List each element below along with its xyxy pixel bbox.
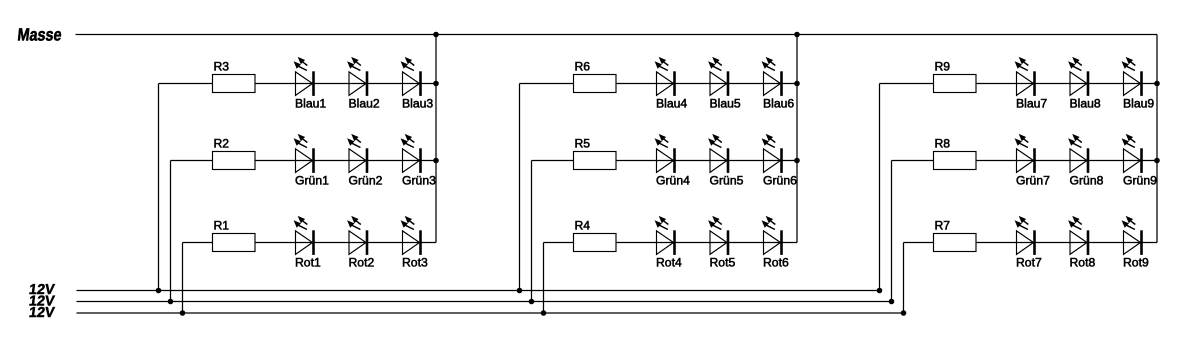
svg-text:Grün1: Grün1 (295, 174, 329, 188)
wire R4 input (544, 242, 574, 244)
wire R6 input (520, 83, 574, 85)
junction rail 1 / R6 feed (517, 288, 523, 294)
junction rail 2 / R2 feed (168, 299, 174, 305)
LED Rot2 (347, 216, 374, 270)
LED Rot5 (708, 216, 735, 270)
LED Grün8 (1068, 134, 1103, 188)
LED Rot3 (401, 216, 428, 270)
wire 12V rail 3 (77, 312, 904, 314)
wire R8 LED chain (976, 160, 1157, 162)
junction group1 vertical / Blau row (433, 81, 439, 87)
wire R5 feed vertical (531, 161, 533, 302)
LED Blau6 (762, 57, 795, 111)
svg-text:Blau1: Blau1 (295, 97, 326, 111)
svg-text:Rot9: Rot9 (1123, 256, 1149, 270)
wire R7 LED chain (976, 242, 1157, 244)
svg-text:R9: R9 (935, 59, 951, 73)
wire group1 cathode vertical (to Masse) (435, 35, 437, 243)
LED Blau8 (1068, 57, 1101, 111)
wire R4 LED chain (616, 242, 797, 244)
svg-text:Rot2: Rot2 (349, 256, 375, 270)
svg-text:R1: R1 (214, 218, 230, 232)
svg-text:Blau8: Blau8 (1070, 97, 1101, 111)
wire R1 feed vertical (182, 243, 184, 314)
LED Blau2 (347, 57, 380, 111)
junction group2 vertical / Blau row (794, 81, 800, 87)
svg-text:Blau4: Blau4 (656, 97, 687, 111)
LED Blau3 (401, 57, 434, 111)
junction rail 1 / R9 feed (877, 288, 883, 294)
svg-text:Blau2: Blau2 (349, 97, 380, 111)
wire R1 LED chain (255, 242, 436, 244)
junction Masse / group2 vertical (794, 32, 800, 38)
wire R3 feed vertical (158, 84, 160, 291)
wire group2 cathode vertical (to Masse) (796, 35, 798, 243)
wire R5 LED chain (616, 160, 797, 162)
resistor R7 (934, 218, 977, 251)
LED Grün6 (762, 134, 797, 188)
LED Rot7 (1015, 216, 1042, 270)
LED Rot4 (655, 216, 682, 270)
net label 12V (rail 3) (28, 305, 56, 321)
wire R8 input (892, 160, 934, 162)
junction group2 vertical / Grün row (794, 158, 800, 164)
LED Rot6 (762, 216, 789, 270)
resistor R2 (213, 136, 256, 169)
junction rail 2 / R8 feed (889, 299, 895, 305)
junction group3 vertical / Grün row (1154, 158, 1160, 164)
svg-text:Grün8: Grün8 (1070, 174, 1104, 188)
svg-text:Rot6: Rot6 (763, 256, 789, 270)
junction rail 2 / R5 feed (529, 299, 535, 305)
wire R6 LED chain (616, 83, 797, 85)
wire R8 feed vertical (891, 161, 893, 302)
resistor R5 (574, 136, 617, 169)
svg-text:12V: 12V (28, 305, 56, 321)
LED Blau4 (655, 57, 688, 111)
wire R3 input (159, 83, 213, 85)
svg-text:Rot5: Rot5 (710, 256, 736, 270)
junction group3 vertical / Blau row (1154, 81, 1160, 87)
wire R2 feed vertical (170, 161, 172, 302)
svg-text:R8: R8 (935, 136, 951, 150)
LED Grün2 (347, 134, 382, 188)
junction rail 3 / R7 feed (901, 310, 907, 316)
junction group1 vertical / Grün row (433, 158, 439, 164)
wire R3 LED chain (255, 83, 436, 85)
svg-text:Masse: Masse (17, 25, 63, 45)
svg-text:Rot4: Rot4 (656, 256, 682, 270)
LED Grün4 (655, 134, 690, 188)
wire 12V rail 2 (77, 301, 892, 303)
svg-text:R5: R5 (575, 136, 591, 150)
net label 12V (rail 1) (28, 282, 56, 298)
junction rail 1 / R3 feed (156, 288, 162, 294)
svg-text:Grün4: Grün4 (656, 174, 690, 188)
LED Grün7 (1015, 134, 1050, 188)
LED Rot9 (1122, 216, 1149, 270)
svg-text:Blau5: Blau5 (710, 97, 741, 111)
resistor R9 (934, 59, 977, 92)
net label 12V (rail 2) (28, 294, 56, 310)
resistor R4 (574, 218, 617, 251)
svg-text:Grün2: Grün2 (349, 174, 383, 188)
svg-text:R3: R3 (214, 59, 230, 73)
LED Blau1 (294, 57, 327, 111)
LED Blau9 (1122, 57, 1155, 111)
LED Rot8 (1068, 216, 1095, 270)
svg-text:Rot3: Rot3 (402, 256, 428, 270)
svg-text:R7: R7 (935, 218, 951, 232)
LED Blau7 (1015, 57, 1048, 111)
wire 12V rail 1 (77, 290, 880, 292)
svg-text:Blau9: Blau9 (1123, 97, 1154, 111)
svg-text:Blau7: Blau7 (1016, 97, 1047, 111)
resistor R1 (213, 218, 256, 251)
wire group3 cathode vertical (to Masse) (1156, 35, 1158, 243)
LED Grün9 (1122, 134, 1157, 188)
svg-text:R4: R4 (575, 218, 591, 232)
wire R2 LED chain (255, 160, 436, 162)
LED Rot1 (294, 216, 321, 270)
wire R7 input (904, 242, 934, 244)
svg-text:R2: R2 (214, 136, 230, 150)
junction Masse / group1 vertical (433, 32, 439, 38)
junction rail 3 / R1 feed (180, 310, 186, 316)
LED Grün1 (294, 134, 329, 188)
svg-text:Blau6: Blau6 (763, 97, 794, 111)
wire R4 feed vertical (543, 243, 545, 314)
resistor R8 (934, 136, 977, 169)
svg-text:Grün5: Grün5 (710, 174, 744, 188)
svg-text:Grün7: Grün7 (1016, 174, 1050, 188)
net label Masse (17, 25, 63, 45)
resistor R3 (213, 59, 256, 92)
LED Blau5 (708, 57, 741, 111)
svg-text:Rot1: Rot1 (295, 256, 321, 270)
svg-text:Grün3: Grün3 (402, 174, 436, 188)
LED Grün3 (401, 134, 436, 188)
LED Grün5 (708, 134, 743, 188)
svg-text:R6: R6 (575, 59, 591, 73)
wire R6 feed vertical (519, 84, 521, 291)
svg-text:Grün6: Grün6 (763, 174, 797, 188)
svg-text:Rot8: Rot8 (1070, 256, 1096, 270)
wire R9 feed vertical (879, 84, 881, 291)
wire R1 input (183, 242, 213, 244)
wire R5 input (532, 160, 574, 162)
resistor R6 (574, 59, 617, 92)
wire Masse rail (76, 34, 1158, 36)
svg-text:Blau3: Blau3 (402, 97, 433, 111)
wire R2 input (171, 160, 213, 162)
svg-text:Grün9: Grün9 (1123, 174, 1157, 188)
svg-text:Rot7: Rot7 (1016, 256, 1042, 270)
wire R9 LED chain (976, 83, 1157, 85)
junction rail 3 / R4 feed (541, 310, 547, 316)
wire R9 input (880, 83, 934, 85)
wire R7 feed vertical (903, 243, 905, 314)
